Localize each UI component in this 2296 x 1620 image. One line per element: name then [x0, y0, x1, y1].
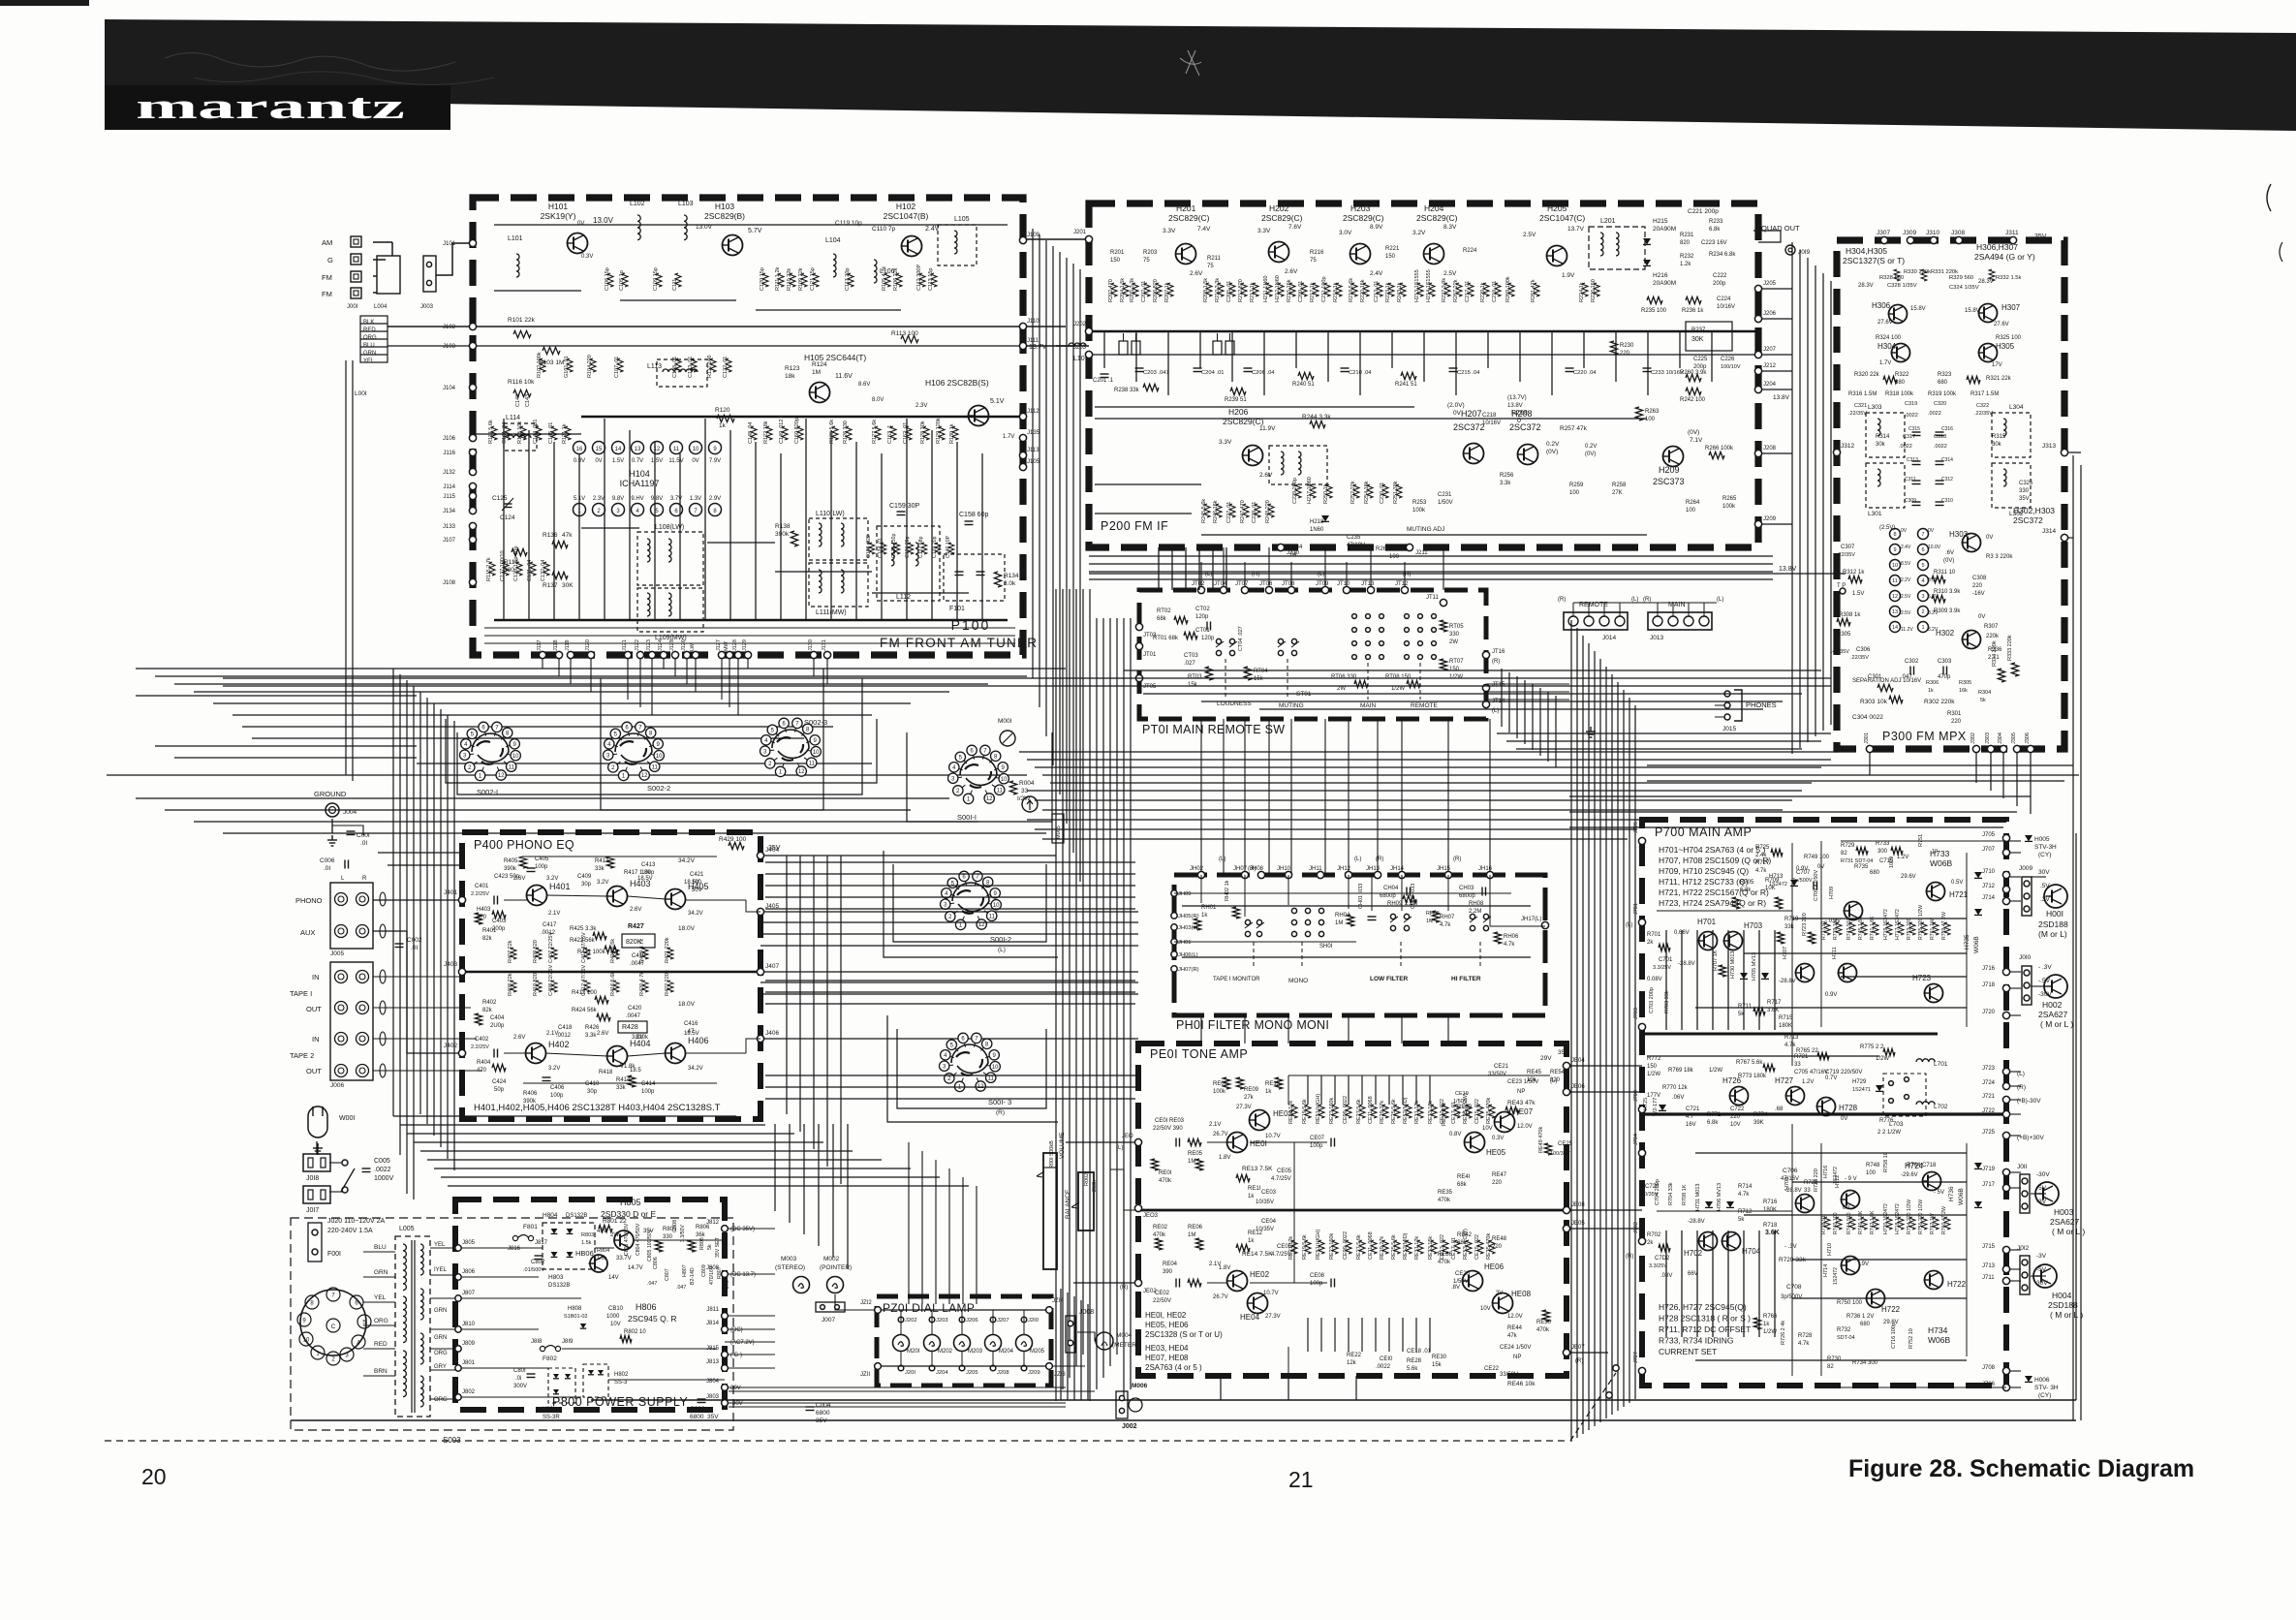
svg-text:47k: 47k	[1507, 1333, 1518, 1339]
svg-text:H730 M013: H730 M013	[1730, 951, 1736, 979]
svg-text:BLU: BLU	[363, 343, 375, 349]
svg-text:3.3/25V: 3.3/25V	[1653, 965, 1671, 971]
svg-text:7.4V: 7.4V	[1197, 226, 1211, 233]
transistor HE05	[1465, 1133, 1485, 1153]
svg-text:2k: 2k	[1647, 940, 1654, 946]
component C204	[1194, 368, 1202, 372]
svg-text:HE06: HE06	[1484, 1262, 1505, 1271]
svg-text:H403: H403	[477, 907, 491, 913]
svg-text:BLK: BLK	[363, 320, 374, 326]
ceramic filter element	[1213, 341, 1222, 355]
svg-text:2SC372: 2SC372	[1509, 422, 1541, 432]
svg-text:2.5V: 2.5V	[1443, 270, 1457, 277]
wire mid bus 4	[1042, 774, 2079, 776]
svg-text:- 9 V: - 9 V	[1845, 1176, 1857, 1182]
wire P100-P200 gap verticals	[1032, 229, 1034, 678]
svg-text:V1.8k: V1.8k	[620, 1064, 636, 1070]
svg-text:H709: H709	[1829, 887, 1835, 899]
wire P200 second bus	[1089, 354, 1758, 356]
wire PE01 drop upper	[1388, 1075, 1390, 1105]
svg-text:RE42: RE42	[1457, 1232, 1473, 1238]
node J112	[1019, 413, 1026, 420]
L201 discriminator box	[1589, 227, 1645, 269]
svg-text:J134: J134	[443, 509, 456, 514]
connector J018	[303, 1154, 330, 1171]
wire P200 link	[1201, 534, 1647, 536]
wire channel link	[765, 980, 1135, 981]
svg-text:1.7V: 1.7V	[1879, 360, 1891, 366]
svg-text:J131: J131	[822, 639, 827, 651]
svg-text:2SC829(C): 2SC829(C)	[1416, 213, 1458, 223]
output transistor H002	[2044, 975, 2067, 998]
node J813	[722, 1365, 729, 1372]
component RE31 tone upper	[1417, 1105, 1423, 1118]
node J712	[2002, 886, 2009, 892]
wire P700 feed 3	[1582, 636, 1584, 1434]
svg-text:1/2W: 1/2W	[1709, 1068, 1722, 1074]
svg-text:5.6k: 5.6k	[1407, 1366, 1418, 1372]
svg-text:2SD188: 2SD188	[2048, 1300, 2078, 1310]
component R742 lower	[1873, 1217, 1878, 1230]
svg-text:180K: 180K	[1763, 1207, 1777, 1213]
svg-text:10V: 10V	[1480, 1306, 1491, 1312]
component R754 lower	[1909, 1217, 1915, 1230]
wire bottom long bus 2	[291, 1419, 2076, 1421]
node J202	[1085, 327, 1092, 334]
output connector J010	[2022, 966, 2032, 1005]
svg-text:R317 1.5M: R317 1.5M	[1970, 391, 1999, 397]
node J105	[1019, 463, 1026, 470]
component RE31 tone lower	[1417, 1240, 1423, 1254]
P700 inner vertical rails	[1791, 843, 1793, 1066]
volume wiper arrow	[1037, 1171, 1044, 1177]
node J113	[1019, 452, 1026, 458]
svg-text:R746 1.8K: R746 1.8K	[1858, 1210, 1864, 1234]
wire P200 inner drop	[1679, 331, 1681, 368]
svg-text:-3V: -3V	[2036, 1199, 2047, 1205]
svg-text:1S2472: 1S2472	[1833, 1167, 1839, 1184]
svg-text:C109 15p: C109 15p	[653, 267, 659, 291]
svg-text:R00I 500kB: R00I 500kB	[1049, 1140, 1055, 1168]
svg-text:W2-177: W2-177	[1653, 1098, 1659, 1116]
component R762 lower	[1933, 1217, 1939, 1230]
component R743	[1849, 922, 1855, 935]
svg-text:JT16: JT16	[1492, 649, 1505, 655]
svg-text:CE02: CE02	[1155, 1291, 1170, 1296]
wire P100 link	[756, 309, 901, 311]
svg-text:150: 150	[1449, 667, 1460, 672]
svg-text:35V: 35V	[2019, 496, 2030, 502]
svg-text:H721: H721	[1949, 890, 1969, 899]
PH01 inner wiring	[1174, 892, 1511, 894]
wire P200 link	[1095, 483, 1201, 485]
svg-text:RE51(HIGH): RE51(HIGH)	[1316, 1230, 1321, 1260]
svg-text:R737 91: R737 91	[1821, 920, 1827, 940]
svg-text:R229 1k: R229 1k	[1480, 282, 1486, 302]
svg-text:C807: C807	[665, 1268, 670, 1281]
wire PE01 drop lower	[1388, 1318, 1390, 1352]
svg-text:-.5V: -.5V	[2038, 978, 2051, 984]
svg-text:C304 0022: C304 0022	[1852, 714, 1883, 721]
svg-text:11.5V: 11.5V	[668, 458, 683, 464]
lamp M002 pointer	[827, 1277, 844, 1293]
node J402	[458, 1049, 465, 1056]
wire P700 link	[1744, 1214, 1967, 1216]
svg-text:JZI2: JZI2	[860, 1300, 872, 1306]
svg-text:2.5V: 2.5V	[1523, 232, 1536, 238]
svg-text:100p: 100p	[641, 870, 655, 876]
svg-text:(L): (L)	[1717, 597, 1723, 603]
svg-text:100/35V: 100/35V	[1550, 1151, 1570, 1157]
node J809	[455, 1346, 461, 1352]
svg-text:R771: R771	[1707, 1112, 1722, 1118]
component R416	[613, 981, 619, 992]
component C140	[948, 543, 954, 554]
svg-text:L101: L101	[508, 235, 523, 242]
wire P700 rail lower	[1743, 1231, 1745, 1337]
svg-text:5k: 5k	[707, 1244, 713, 1250]
component R115	[489, 562, 495, 576]
svg-text:C149 .012: C149 .012	[779, 420, 785, 444]
filter F101 box	[944, 554, 1005, 601]
svg-text:H722: H722	[1947, 1280, 1967, 1289]
svg-text:12.0V: 12.0V	[1507, 1314, 1523, 1320]
svg-text:S002-2: S002-2	[647, 784, 670, 793]
svg-text:H302: H302	[1936, 629, 1955, 638]
svg-text:5k: 5k	[1980, 698, 1986, 703]
svg-text:0V: 0V	[577, 221, 584, 227]
svg-text:C404: C404	[490, 1015, 505, 1021]
component R243	[1400, 283, 1406, 296]
wire P100 inner drop	[830, 430, 832, 620]
svg-text:H306,H307: H306,H307	[1976, 242, 2018, 252]
node J727	[1638, 1367, 1645, 1374]
svg-text:.68: .68	[1775, 1106, 1784, 1112]
wire channel drop	[774, 1124, 776, 1211]
wire P100 inner drop	[503, 419, 505, 620]
svg-text:J003: J003	[420, 304, 434, 310]
variable capacitor C124	[504, 504, 512, 508]
transistor H106	[969, 406, 989, 426]
svg-text:R237: R237	[1691, 327, 1706, 333]
svg-text:.8V: .8V	[1451, 1285, 1460, 1291]
component C202	[1144, 283, 1150, 296]
C315 C316 C313 C314 C311 C312 C309 C310 middle column	[1912, 432, 1921, 436]
node J121	[624, 651, 631, 658]
svg-text:H102: H102	[896, 202, 916, 211]
svg-text:30k: 30k	[1992, 442, 2002, 448]
svg-text:JT13: JT13	[1361, 581, 1375, 587]
wire socket-area bus 12	[165, 809, 911, 811]
wire PT01 top drops from P200	[1200, 562, 1202, 590]
rotary switch S001-2	[941, 871, 1002, 929]
component R252	[1353, 484, 1359, 498]
wire P700 feed 7	[1605, 667, 1607, 1418]
svg-text:6.8k: 6.8k	[1709, 227, 1721, 233]
transistor H728	[1816, 1098, 1836, 1116]
node J303	[1987, 745, 1994, 752]
svg-text:L105: L105	[954, 216, 970, 223]
transformer primary winding	[403, 1244, 406, 1291]
svg-text:R427: R427	[628, 923, 644, 930]
svg-text:CE07: CE07	[1310, 1136, 1325, 1141]
svg-text:H216: H216	[1653, 272, 1668, 279]
svg-text:(R): (R)	[1558, 597, 1566, 603]
svg-text:R245 5.6k: R245 5.6k	[1201, 499, 1207, 523]
svg-text:220: 220	[1492, 1180, 1503, 1186]
svg-text:H303: H303	[1949, 530, 1969, 539]
svg-text:R233: R233	[1709, 219, 1723, 225]
wire mid-left drop	[826, 856, 828, 1167]
svg-text:C: C	[331, 1324, 336, 1330]
wire channel link	[765, 1098, 1135, 1100]
node J106	[469, 434, 476, 441]
wire PE01 drop upper	[1348, 1075, 1350, 1105]
wire PE01 drop upper	[1334, 1075, 1336, 1105]
svg-text:R118 10k: R118 10k	[517, 421, 523, 444]
svg-text:RT01 68k: RT01 68k	[1153, 636, 1179, 641]
svg-text:J8I8: J8I8	[531, 1339, 543, 1345]
svg-text:RE43 47k: RE43 47k	[1507, 1100, 1536, 1106]
svg-text:J806: J806	[462, 1269, 476, 1275]
svg-text:R112 100: R112 100	[707, 356, 713, 378]
component RE21 tone upper	[1291, 1105, 1297, 1118]
svg-text:C303: C303	[1938, 659, 1952, 665]
component C217	[1468, 283, 1474, 296]
component R246	[1216, 504, 1222, 517]
wire drop to PT01	[1158, 547, 1160, 590]
wire drop to PT01	[1185, 547, 1187, 590]
wire right mesh drop	[1555, 696, 1557, 767]
component R229	[1483, 283, 1489, 296]
transistor HE06	[1463, 1271, 1483, 1292]
wire P100 inner drop	[780, 453, 782, 620]
component H719	[1886, 922, 1892, 935]
svg-text:39K: 39K	[1753, 1120, 1764, 1126]
svg-text:CE24 1/50V: CE24 1/50V	[1500, 1345, 1531, 1351]
svg-text:J20I: J20I	[905, 1370, 915, 1376]
wire mid bus 7	[1035, 799, 1792, 801]
wire socket-area bus 13	[194, 821, 978, 823]
node J718	[2002, 984, 2009, 991]
wire PE01 drop lower	[1361, 1318, 1363, 1352]
svg-text:35V: 35V	[816, 1417, 827, 1424]
svg-text:C107 .01: C107 .01	[614, 357, 620, 378]
svg-text:26.7V: 26.7V	[1213, 1132, 1228, 1137]
node JT05	[1135, 674, 1142, 681]
svg-text:C135 150p: C135 150p	[891, 534, 897, 558]
svg-text:R127 5.6k: R127 5.6k	[872, 420, 878, 444]
wire loop around S001-3 inner	[897, 1029, 1046, 1108]
svg-text:RE22: RE22	[1347, 1353, 1362, 1358]
wire P700 rail upper	[1774, 930, 1776, 1030]
component R420	[642, 981, 648, 992]
node JE06	[1563, 1088, 1569, 1095]
svg-text:H807: H807	[682, 1264, 688, 1277]
svg-text:CT04 .027: CT04 .027	[1238, 626, 1244, 651]
component H214	[1429, 283, 1435, 296]
svg-text:R230: R230	[1620, 343, 1634, 349]
P201 DIAL LAMP module border	[877, 1296, 1051, 1386]
svg-text:( G ): ( G )	[730, 1353, 742, 1358]
transistor H202	[1269, 242, 1289, 263]
node J314	[2061, 534, 2067, 541]
transistor HE04	[1248, 1293, 1268, 1314]
svg-text:R732: R732	[1837, 1327, 1851, 1333]
component R415	[613, 948, 619, 959]
svg-text:6800p: 6800p	[1380, 893, 1396, 899]
svg-text:220: 220	[1620, 351, 1630, 357]
wire PT01 to left-channel links	[1486, 683, 1569, 685]
component R109 in P100 RF row	[801, 273, 807, 287]
node J307	[1880, 236, 1887, 243]
svg-text:-30V: -30V	[2038, 991, 2052, 998]
svg-text:RE21 12k: RE21 12k	[1288, 1101, 1294, 1124]
svg-text:VOLUME: VOLUME	[1059, 1132, 1066, 1159]
wire P700 feed 9	[1617, 682, 1619, 1411]
component C133	[869, 543, 875, 554]
svg-text:J810: J810	[462, 1322, 476, 1327]
svg-text:11: 11	[652, 764, 659, 770]
svg-text:HE02: HE02	[1250, 1270, 1270, 1279]
svg-text:GROUND: GROUND	[314, 790, 347, 798]
svg-text:RE19 5.6k: RE19 5.6k	[1302, 1099, 1308, 1124]
component R219	[1351, 283, 1357, 296]
component RE25 tone upper	[1394, 1105, 1400, 1118]
svg-text:HE05: HE05	[1486, 1148, 1506, 1157]
svg-text:RE25 5.6k: RE25 5.6k	[1391, 1234, 1397, 1260]
wire P201 left link	[843, 1309, 877, 1311]
wire below P300	[1569, 795, 2031, 797]
svg-text:J303: J303	[1985, 732, 1991, 744]
component C220	[1566, 368, 1574, 372]
component H217	[1310, 484, 1316, 498]
svg-text:R101 22k: R101 22k	[508, 317, 536, 324]
wire P700 extra	[1792, 918, 1967, 919]
component C219	[1495, 283, 1501, 296]
wire loop around S001-1	[907, 732, 1052, 822]
svg-text:P300 FM MPX: P300 FM MPX	[1882, 730, 1967, 743]
node JE05	[1563, 1225, 1569, 1231]
node J704	[1638, 1149, 1645, 1156]
svg-text:2.4k: 2.4k	[1755, 853, 1767, 858]
component R739	[1836, 922, 1842, 935]
svg-text:C424: C424	[492, 1079, 507, 1085]
resistor R120	[717, 415, 734, 421]
REMOTE speaker connector	[1564, 612, 1628, 630]
wire P200 link	[1095, 513, 1192, 514]
svg-text:2SC829(C): 2SC829(C)	[1168, 213, 1210, 223]
wire P700 rail lower	[1681, 1231, 1683, 1337]
wire riser 1	[392, 669, 394, 1116]
svg-text:.22/35V: .22/35V	[1837, 552, 1855, 558]
svg-text:2.5V: 2.5V	[1901, 594, 1911, 600]
svg-text:R751: R751	[1918, 834, 1924, 847]
svg-text:9.8V: 9.8V	[612, 496, 624, 502]
svg-text:C145 .01: C145 .01	[548, 422, 554, 444]
svg-text:L110(LW): L110(LW)	[816, 511, 845, 517]
svg-text:CEI0: CEI0	[1380, 1356, 1393, 1362]
svg-text:R405: R405	[504, 858, 518, 864]
svg-text:J132: J132	[443, 470, 456, 476]
svg-text:L112: L112	[896, 594, 911, 601]
component R206	[1156, 283, 1162, 296]
wire ground branch	[332, 826, 363, 835]
svg-text:18.5V: 18.5V	[637, 876, 653, 882]
node J304	[2000, 745, 2006, 752]
svg-text:J711: J711	[1982, 1275, 1995, 1281]
component R267	[1456, 283, 1462, 296]
svg-text:2SD188: 2SD188	[2038, 919, 2068, 929]
wire PH01 rail	[1182, 956, 1531, 958]
svg-text:RE23 150k: RE23 150k	[1329, 1233, 1335, 1260]
svg-text:YEL: YEL	[434, 1242, 446, 1248]
component CE11 tone upper	[1371, 1105, 1377, 1118]
svg-text:R329 560: R329 560	[1949, 275, 1973, 281]
wire long cross link	[223, 685, 1831, 687]
svg-text:R305: R305	[1959, 680, 1971, 686]
wire right mesh drop	[1508, 672, 1510, 732]
svg-text:CE15 .022: CE15 .022	[1474, 1234, 1480, 1260]
node J801	[455, 1365, 461, 1371]
wire bottom strip	[729, 1406, 1066, 1408]
component CE13 tone lower	[1443, 1240, 1448, 1254]
component R409	[536, 948, 542, 959]
svg-text:11.9V: 11.9V	[1259, 425, 1276, 432]
rotary switch S002-3	[760, 718, 822, 776]
svg-text:H726, H727 2SC945(Q): H726, H727 2SC945(Q)	[1659, 1302, 1747, 1312]
svg-text:C305: C305	[1837, 632, 1851, 638]
svg-text:J205: J205	[966, 1370, 978, 1376]
svg-text:IYEL: IYEL	[434, 1267, 448, 1273]
node J722	[2002, 1110, 2009, 1117]
svg-text:.0047: .0047	[626, 1013, 641, 1019]
M005 label box	[1052, 814, 1064, 843]
svg-text:11: 11	[673, 447, 680, 452]
svg-text:(0V): (0V)	[1585, 452, 1596, 457]
svg-text:10/16V: 10/16V	[1717, 304, 1735, 310]
svg-text:C215 .04: C215 .04	[1457, 370, 1480, 376]
svg-text:680: 680	[1860, 1322, 1871, 1327]
svg-text:RE27 5.6k: RE27 5.6k	[1356, 1234, 1362, 1260]
svg-text:R730: R730	[1827, 1356, 1842, 1362]
component G101	[567, 358, 573, 372]
wire channel P200-PT01	[1089, 578, 1773, 580]
svg-text:J701: J701	[1633, 903, 1639, 915]
component C132	[543, 562, 549, 576]
svg-text:0.2V: 0.2V	[1546, 441, 1560, 448]
wire riser 10	[453, 721, 455, 1170]
svg-text:H716: H716	[1823, 1166, 1829, 1178]
component R737	[1824, 922, 1830, 935]
svg-text:C136 20p: C136 20p	[905, 536, 911, 558]
svg-text:.0012: .0012	[556, 1033, 572, 1039]
svg-text:R711, R712 DC OFFSET: R711, R712 DC OFFSET	[1659, 1324, 1751, 1334]
svg-text:RE54: RE54	[1550, 1070, 1566, 1075]
svg-text:12: 12	[1892, 594, 1898, 600]
component C144	[536, 426, 542, 440]
svg-text:H706 MV13: H706 MV13	[1717, 1183, 1722, 1211]
node J703	[1638, 1023, 1645, 1030]
svg-text:100p: 100p	[535, 864, 548, 870]
svg-text:R201: R201	[1110, 250, 1125, 256]
svg-text:2.1V: 2.1V	[1209, 1122, 1221, 1128]
svg-text:R130 1k: R130 1k	[949, 423, 955, 444]
svg-text:J015: J015	[1722, 726, 1736, 732]
node J716	[2002, 968, 2009, 975]
component R130	[952, 426, 958, 440]
svg-text:JH12: JH12	[1337, 866, 1351, 872]
